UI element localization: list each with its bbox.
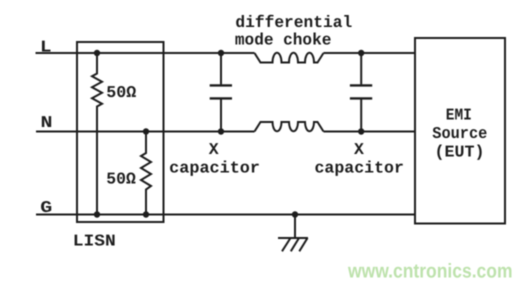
svg-text:LISN: LISN (73, 232, 116, 251)
svg-text:www.cntronics.com: www.cntronics.com (347, 261, 512, 283)
svg-text:50Ω: 50Ω (106, 83, 136, 102)
svg-text:N: N (41, 113, 53, 132)
svg-text:differential: differential (235, 13, 352, 32)
svg-text:capacitor: capacitor (315, 159, 404, 178)
svg-text:X: X (354, 140, 364, 159)
svg-text:capacitor: capacitor (169, 159, 260, 178)
svg-text:(EUT): (EUT) (435, 143, 485, 162)
svg-text:X: X (209, 140, 219, 159)
svg-text:50Ω: 50Ω (106, 170, 136, 189)
svg-text:L: L (40, 37, 52, 56)
svg-text:Source: Source (432, 124, 487, 143)
svg-text:EMI: EMI (446, 105, 472, 124)
svg-text:mode choke: mode choke (235, 31, 332, 50)
svg-text:G: G (40, 198, 52, 217)
